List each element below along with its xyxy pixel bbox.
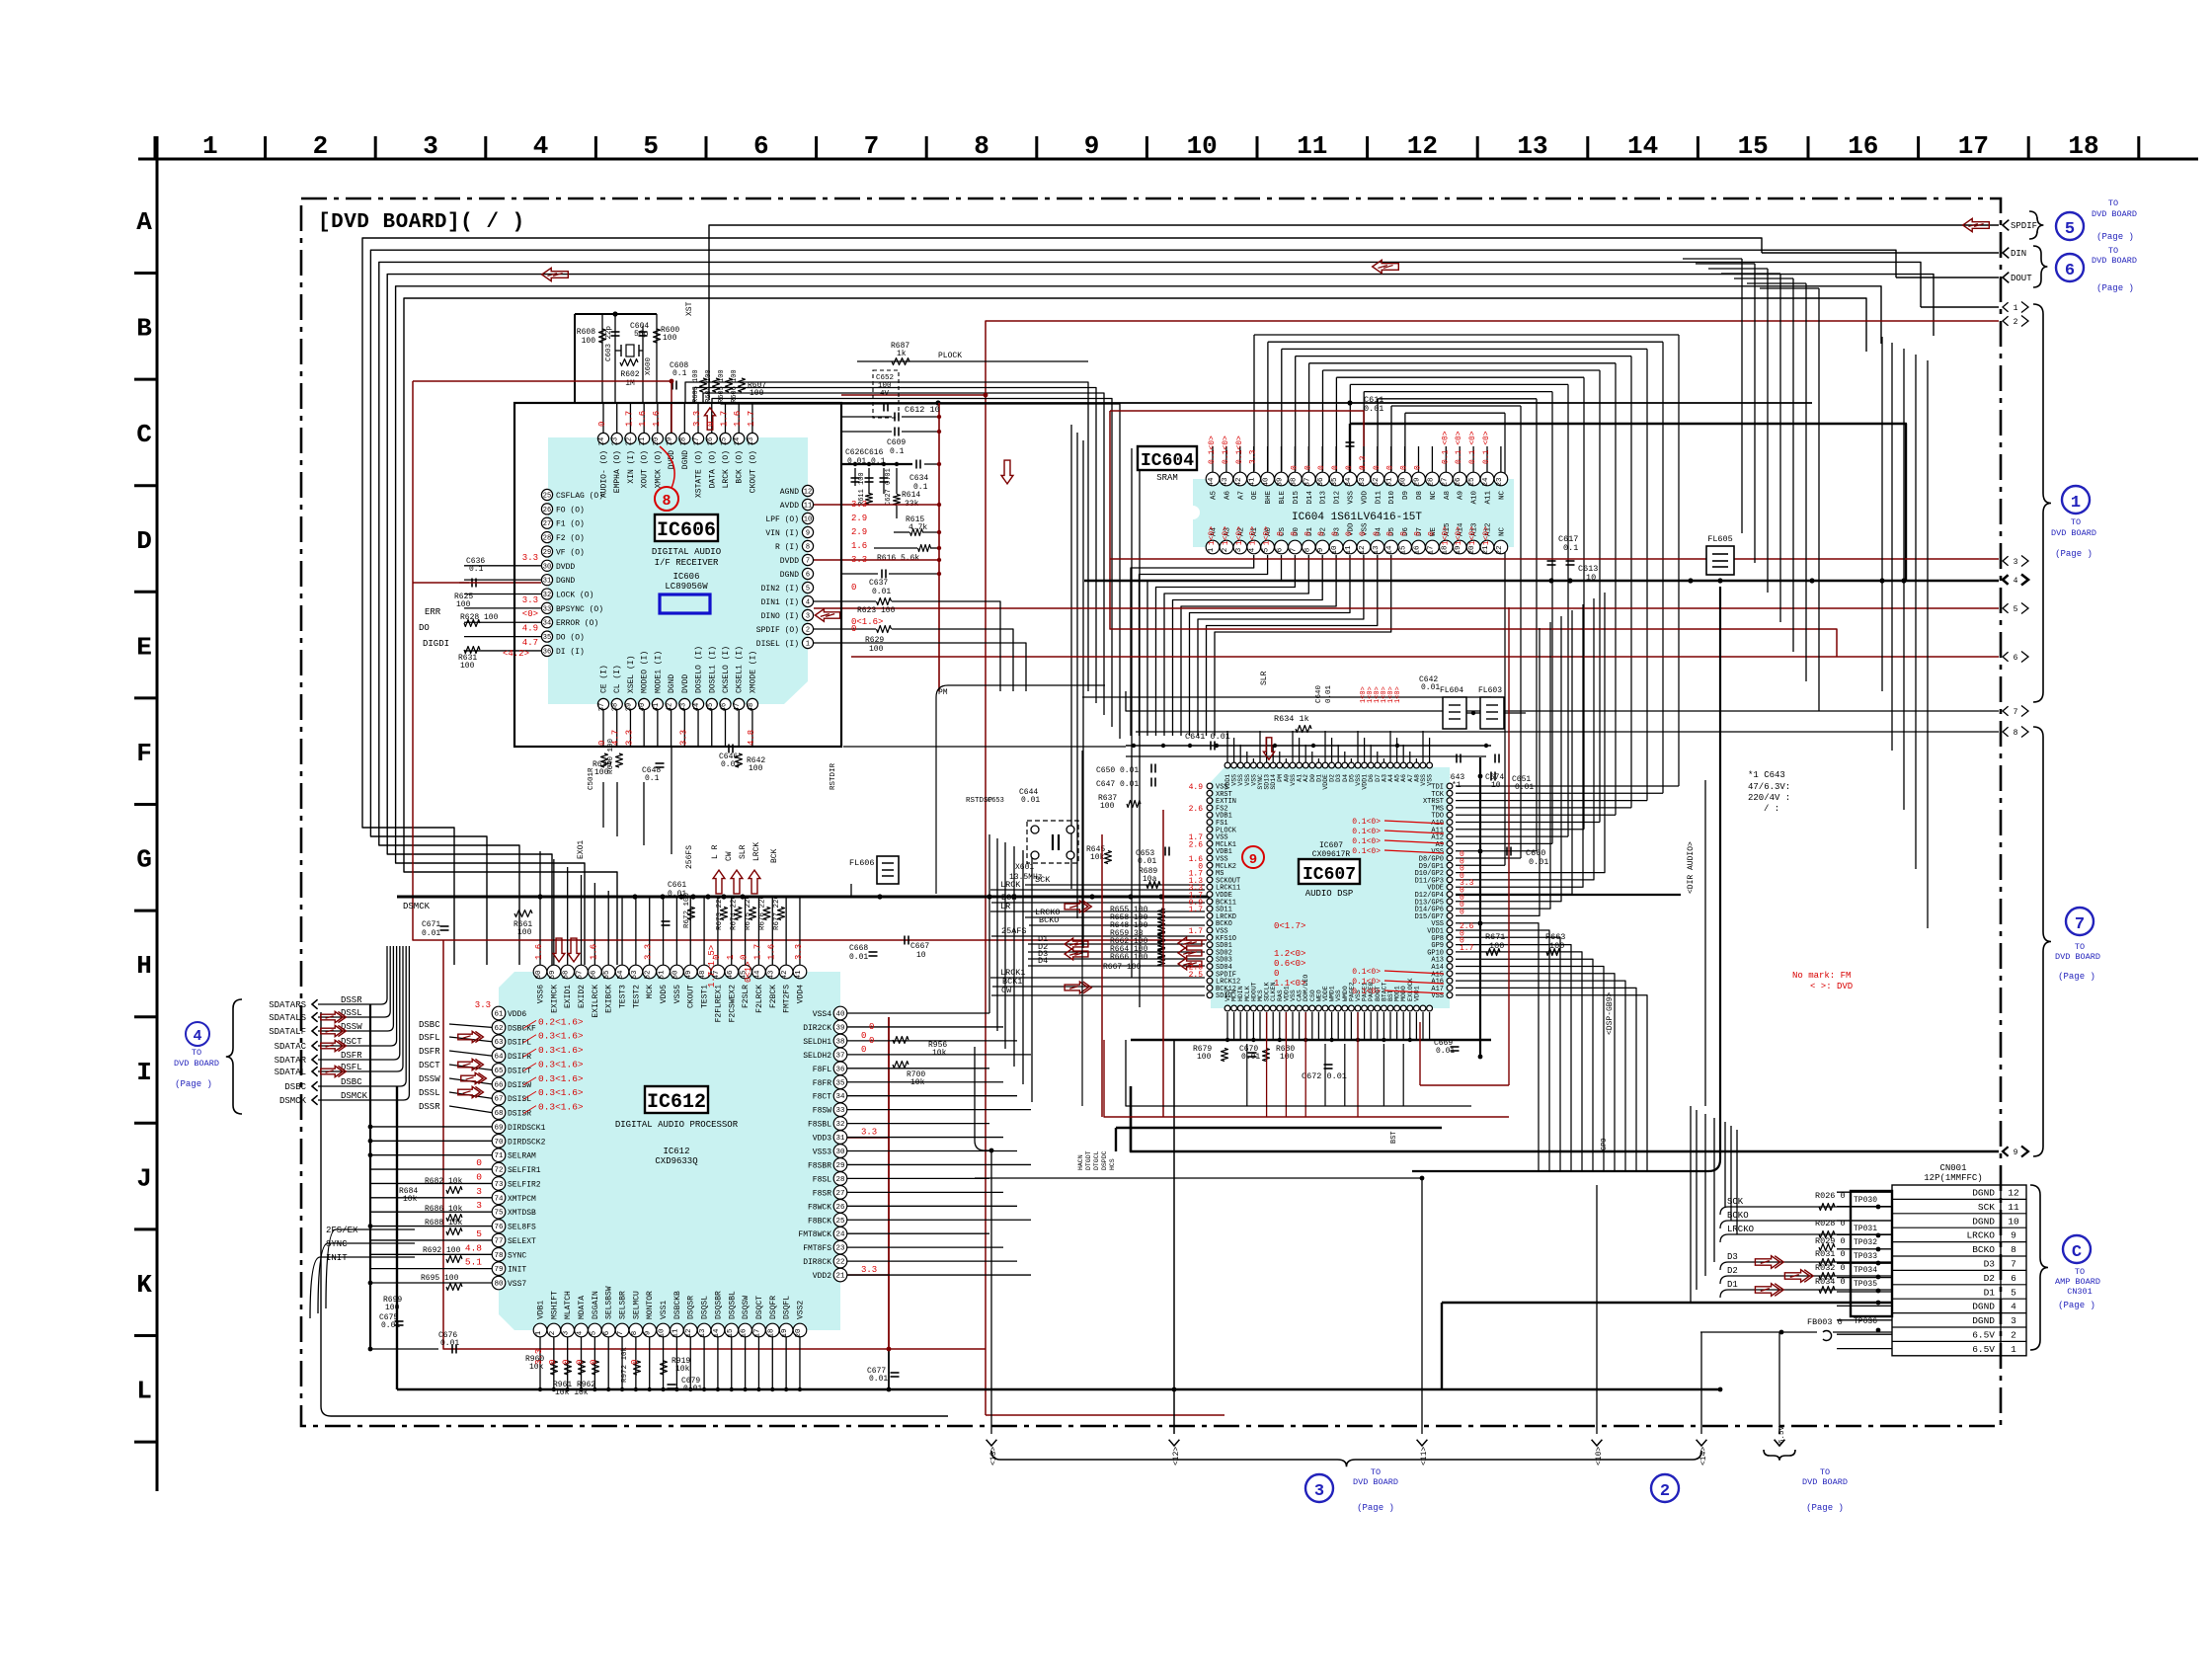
red wire <5> [851, 607, 1999, 609]
svg-text:(Page ): (Page ) [2058, 972, 2095, 982]
svg-text:32: 32 [1373, 477, 1381, 486]
FL604 FL603 [1443, 697, 1466, 729]
DVD BOARD dash-dot boundary [301, 198, 2001, 1426]
svg-text:CKSELO (I): CKSELO (I) [722, 646, 731, 693]
C641 bus [843, 746, 1126, 748]
edge DIN [2003, 248, 2009, 259]
svg-text:42: 42 [667, 703, 674, 711]
svg-text:1<0>: 1<0> [1482, 526, 1491, 545]
svg-text:D12: D12 [1334, 491, 1342, 505]
svg-text:C: C [2072, 1243, 2082, 1262]
svg-text:28: 28 [543, 535, 551, 543]
svg-text:0: 0 [1331, 531, 1340, 536]
svg-text:16: 16 [707, 437, 715, 445]
svg-text:22: 22 [835, 1259, 844, 1267]
svg-text:DATA (O): DATA (O) [708, 450, 717, 488]
svg-text:TP030: TP030 [1854, 1196, 1877, 1205]
svg-text:SLR: SLR [739, 844, 748, 859]
svg-text:27: 27 [543, 520, 551, 528]
svg-text:SEL8FS: SEL8FS [508, 1224, 536, 1232]
svg-text:C612 10: C612 10 [905, 405, 940, 415]
svg-text:SPDIF (O): SPDIF (O) [756, 626, 799, 635]
svg-text:<10>: <10> [1595, 1447, 1604, 1465]
svg-text:1<0>: 1<0> [1455, 526, 1463, 545]
svg-text:D15: D15 [1293, 491, 1301, 505]
svg-text:0: 0 [869, 1036, 874, 1046]
svg-text:TO: TO [2108, 246, 2118, 256]
top-left nested bus rectangles [362, 238, 1762, 965]
red verticals IC607 bottom [1266, 1012, 1268, 1117]
blue annotation 5 [2029, 211, 2043, 239]
svg-text:R605 100: R605 100 [718, 369, 726, 403]
red left bus from IC606 down [413, 381, 443, 940]
svg-text:DIGDI: DIGDI [423, 639, 449, 649]
svg-text:2.5: 2.5 [1189, 971, 1204, 980]
svg-text:DSSR: DSSR [419, 1102, 440, 1112]
svg-text:18: 18 [2068, 131, 2098, 161]
svg-text:10: 10 [1586, 573, 1596, 583]
svg-text:9: 9 [806, 530, 810, 538]
svg-text:3.3: 3.3 [678, 730, 688, 746]
svg-text:54: 54 [617, 970, 625, 980]
svg-text:8: 8 [662, 493, 671, 510]
svg-text:GP9: GP9 [1601, 1138, 1609, 1150]
svg-text:3: 3 [1314, 1482, 1324, 1501]
svg-text:76: 76 [494, 1224, 504, 1231]
svg-text:1.6: 1.6 [766, 944, 776, 960]
svg-text:13: 13 [699, 1328, 707, 1338]
blue rect marker inside IC606 [660, 594, 710, 613]
svg-text:DVD BOARD: DVD BOARD [2051, 528, 2096, 538]
svg-text:R692 100: R692 100 [423, 1246, 461, 1255]
svg-text:4: 4 [193, 1028, 201, 1045]
svg-text:DVDD: DVDD [556, 563, 575, 572]
svg-text:R606 100: R606 100 [731, 369, 739, 403]
IC607 top verticals [1226, 731, 1228, 762]
svg-text:5: 5 [643, 131, 659, 161]
edge arrow 4 [2003, 575, 2009, 585]
nested red/gray rects below IC607 [1104, 1040, 1509, 1117]
svg-text:0.1<0>: 0.1<0> [1208, 436, 1217, 464]
svg-text:OE: OE [1251, 491, 1259, 501]
svg-text:R034 0: R034 0 [1815, 1277, 1846, 1287]
svg-text:71: 71 [494, 1152, 504, 1160]
svg-text:DIR8CK: DIR8CK [803, 1258, 831, 1267]
svg-text:2: 2 [1222, 548, 1229, 553]
svg-text:AMP BOARD: AMP BOARD [2055, 1277, 2100, 1287]
svg-text:NC: NC [1430, 491, 1438, 501]
svg-text:DSQSBL: DSQSBL [728, 1291, 737, 1319]
blue annotation 7 [2033, 727, 2051, 1156]
svg-text:7: 7 [806, 558, 810, 566]
svg-text:3.3: 3.3 [475, 1000, 491, 1010]
svg-text:0: 0 [630, 1360, 640, 1365]
svg-text:TP034: TP034 [1854, 1266, 1877, 1275]
svg-text:25AFS: 25AFS [1001, 926, 1027, 936]
svg-text:44: 44 [1208, 477, 1216, 487]
svg-text:0.01: 0.01 [683, 1385, 702, 1393]
staircase below IC604 to IC607 [1131, 555, 1254, 736]
svg-text:R604 100: R604 100 [705, 369, 713, 403]
svg-text:(Page ): (Page ) [2055, 549, 2093, 559]
svg-text:1: 1 [202, 131, 218, 161]
svg-text:0: 0 [1373, 465, 1382, 470]
red bus around IC604 to <3> [1110, 411, 1837, 657]
svg-text:DSMCK: DSMCK [279, 1096, 307, 1106]
svg-text:R972 10k: R972 10k [621, 1346, 629, 1383]
svg-text:100: 100 [1197, 1053, 1212, 1062]
IC604 top black bus [1350, 424, 1906, 581]
svg-text:37: 37 [835, 1052, 844, 1060]
svg-text:F8SBL: F8SBL [808, 1121, 831, 1130]
IC606 right side network [938, 403, 940, 691]
svg-text:R674 220: R674 220 [731, 894, 739, 930]
svg-text:F1 (O): F1 (O) [556, 520, 585, 529]
IC612 pins bottom 1..20 [533, 1323, 547, 1337]
svg-text:4: 4 [806, 599, 810, 607]
svg-text:R675 220: R675 220 [745, 894, 752, 930]
svg-text:DGND: DGND [556, 577, 575, 586]
svg-text:0: 0 [1386, 531, 1395, 536]
svg-text:9: 9 [645, 1331, 653, 1336]
svg-text:TP033: TP033 [1854, 1252, 1877, 1261]
edge arrow 5 [2003, 603, 2009, 613]
IC604 top pin stubs [1212, 446, 1214, 472]
svg-text:0.2<1.6>: 0.2<1.6> [538, 1016, 584, 1027]
svg-text:SELDH2: SELDH2 [803, 1052, 831, 1061]
svg-text:TO: TO [2071, 517, 2081, 527]
svg-text:F8CT: F8CT [813, 1093, 831, 1102]
svg-text:A11: A11 [1485, 491, 1493, 505]
edge arrow 1 [2003, 302, 2009, 312]
svg-text:<DSP-GB9>: <DSP-GB9> [1606, 992, 1615, 1035]
svg-text:2.6: 2.6 [1460, 922, 1474, 931]
svg-text:100: 100 [582, 337, 596, 346]
svg-text:R667 100: R667 100 [1103, 963, 1142, 972]
svg-text:0.01 0.1: 0.01 0.1 [847, 457, 886, 466]
svg-text:FL606: FL606 [849, 858, 875, 868]
svg-text:3.3: 3.3 [794, 944, 804, 960]
IC606 pins bottom 37..48 [597, 698, 608, 709]
svg-text:(Page ): (Page ) [1357, 1503, 1394, 1513]
svg-text:VSS: VSS [1427, 774, 1434, 786]
svg-text:CN301: CN301 [2067, 1287, 2093, 1297]
svg-text:[DVD BOARD]( / ): [DVD BOARD]( / ) [318, 211, 525, 234]
svg-text:44: 44 [693, 703, 701, 711]
svg-text:DSSW: DSSW [341, 1022, 362, 1032]
svg-text:DIRDSCK2: DIRDSCK2 [508, 1138, 546, 1147]
svg-text:47: 47 [734, 703, 742, 711]
svg-text:IC606: IC606 [672, 572, 699, 582]
svg-text:24: 24 [1482, 477, 1490, 487]
blue annotation 6 [2033, 246, 2047, 287]
svg-text:DGND: DGND [1972, 1216, 1995, 1227]
svg-text:5: 5 [2065, 220, 2075, 239]
svg-text:1<0>: 1<0> [1441, 526, 1450, 545]
svg-text:0.01: 0.01 [1325, 684, 1333, 703]
svg-text:24: 24 [835, 1231, 845, 1239]
svg-text:A: A [136, 207, 152, 237]
svg-text:9: 9 [2014, 1148, 2018, 1157]
svg-text:IC606: IC606 [657, 519, 716, 542]
svg-text:24: 24 [598, 437, 606, 445]
svg-text:BPSYNC (O): BPSYNC (O) [556, 605, 603, 614]
red wire <2> to edge [986, 321, 1999, 1415]
svg-text:D13: D13 [1320, 491, 1328, 505]
C652 dashed box [873, 370, 899, 418]
svg-text:DVD BOARD: DVD BOARD [2055, 952, 2100, 962]
svg-text:10k 10k: 10k 10k [555, 1388, 589, 1397]
svg-text:DVD BOARD: DVD BOARD [1353, 1477, 1398, 1487]
svg-text:SELEXT: SELEXT [508, 1237, 536, 1246]
svg-text:3.3: 3.3 [851, 555, 867, 565]
svg-text:1.7<1.5>: 1.7<1.5> [707, 945, 717, 988]
svg-text:78: 78 [494, 1252, 503, 1260]
svg-text:4.8: 4.8 [747, 730, 756, 746]
svg-text:DSMCK: DSMCK [341, 1091, 368, 1101]
svg-text:FO (O): FO (O) [556, 506, 585, 515]
svg-text:39: 39 [835, 1024, 844, 1032]
svg-text:BCKO: BCKO [1039, 915, 1059, 925]
svg-text:2.6: 2.6 [1189, 840, 1204, 849]
svg-text:26: 26 [1455, 477, 1462, 487]
svg-text:0.1<0>: 0.1<0> [1352, 837, 1381, 846]
svg-text:100: 100 [869, 645, 884, 654]
IC607 body [1211, 767, 1450, 1008]
svg-text:23: 23 [835, 1245, 845, 1253]
svg-text:20: 20 [1468, 545, 1476, 555]
svg-text:79: 79 [494, 1266, 503, 1274]
red 3.3 line over IC606 to pin19 [413, 381, 671, 433]
svg-text:0: 0 [1317, 465, 1326, 470]
svg-text:100: 100 [663, 334, 677, 343]
svg-text:0: 0 [1303, 465, 1312, 470]
svg-text:DSFR: DSFR [341, 1051, 362, 1061]
wire <7> [1126, 691, 1999, 711]
svg-text:2: 2 [2014, 318, 2018, 327]
svg-text:5: 5 [476, 1228, 482, 1239]
edge arrow 3 [2003, 556, 2009, 566]
svg-text:C501R: C501R [588, 767, 595, 790]
svg-text:63: 63 [494, 1039, 504, 1047]
svg-text:F2FLREX1: F2FLREX1 [714, 985, 723, 1023]
svg-text:VSS7: VSS7 [508, 1280, 526, 1289]
svg-text:0.01: 0.01 [1421, 683, 1440, 692]
svg-text:R032 0: R032 0 [1815, 1263, 1846, 1273]
heavy VSS rail x1499 [1479, 757, 1481, 1057]
svg-text:0.1<0>: 0.1<0> [1352, 847, 1381, 856]
svg-text:C661: C661 [668, 881, 686, 890]
svg-text:DSQSR: DSQSR [687, 1296, 696, 1319]
svg-text:VSS: VSS [1348, 491, 1356, 505]
svg-text:3: 3 [2014, 558, 2018, 567]
svg-text:A8: A8 [1444, 491, 1452, 500]
IC612 pins right 40..21 [833, 1006, 847, 1020]
svg-text:3.3: 3.3 [1460, 879, 1474, 888]
svg-text:CW: CW [725, 851, 734, 861]
IC606 left stubs [464, 565, 541, 567]
svg-text:C672 0.01: C672 0.01 [1302, 1071, 1347, 1081]
svg-text:DSFL: DSFL [419, 1033, 440, 1043]
svg-text:1.7: 1.7 [1189, 906, 1204, 914]
svg-text:6: 6 [2011, 1273, 2016, 1284]
svg-text:DSQCT: DSQCT [755, 1296, 764, 1319]
svg-text:12: 12 [1407, 131, 1438, 161]
svg-text:XMCK (O): XMCK (O) [654, 450, 663, 488]
svg-text:DSGAIN: DSGAIN [592, 1291, 600, 1319]
svg-text:3: 3 [476, 1200, 482, 1211]
svg-text:DOUT: DOUT [2011, 274, 2032, 283]
svg-text:XSEL (I): XSEL (I) [627, 656, 636, 693]
svg-text:1.7: 1.7 [624, 411, 634, 427]
svg-text:0: 0 [1414, 531, 1423, 536]
svg-text:3.3: 3.3 [522, 553, 538, 563]
svg-text:0.01: 0.01 [872, 588, 891, 596]
svg-text:18: 18 [1441, 545, 1449, 554]
svg-text:DSSL: DSSL [341, 1008, 362, 1018]
svg-text:TO: TO [1820, 1467, 1830, 1477]
svg-text:SELRAM: SELRAM [508, 1152, 536, 1161]
svg-text:TO: TO [2075, 1267, 2085, 1277]
svg-text:0: 0 [861, 1045, 866, 1055]
svg-text:0.01: 0.01 [1515, 783, 1534, 792]
svg-text:29: 29 [1414, 477, 1422, 486]
red arrows D3 D2 D1 [1755, 1256, 1779, 1269]
svg-text:PLOCK: PLOCK [938, 352, 962, 360]
svg-text:F8FR: F8FR [813, 1079, 831, 1088]
svg-text:15: 15 [720, 437, 728, 445]
svg-text:21: 21 [835, 1273, 845, 1281]
svg-text:DI (I): DI (I) [556, 648, 585, 657]
svg-text:32: 32 [543, 592, 551, 599]
svg-text:DSQSL: DSQSL [701, 1296, 710, 1319]
svg-text:10: 10 [804, 516, 812, 524]
svg-text:SDATAC: SDATAC [275, 1042, 307, 1052]
svg-text:TEST3: TEST3 [619, 985, 628, 1008]
svg-text:6: 6 [603, 1330, 611, 1335]
svg-text:0: 0 [1290, 531, 1299, 536]
svg-text:10: 10 [1187, 131, 1218, 161]
svg-text:DSBCKF: DSBCKF [508, 1024, 536, 1033]
svg-text:F8SL: F8SL [813, 1175, 831, 1184]
svg-text:< >: DVD: < >: DVD [1810, 982, 1853, 991]
svg-text:6.5V: 6.5V [1972, 1344, 1995, 1355]
svg-text:0.1<0>: 0.1<0> [1352, 968, 1381, 977]
svg-text:4: 4 [577, 1330, 585, 1335]
svg-text:58: 58 [563, 970, 571, 979]
svg-text:LC89056W: LC89056W [665, 582, 708, 592]
svg-text:20: 20 [795, 1328, 803, 1338]
svg-text:48: 48 [748, 703, 755, 711]
svg-text:C609: C609 [887, 438, 906, 447]
left verticals feeding CN signals [1690, 1106, 1692, 1303]
svg-text:0.1 <0>: 0.1 <0> [1455, 431, 1463, 464]
svg-text:EMPHA (O): EMPHA (O) [613, 450, 622, 493]
svg-text:F8BCK: F8BCK [808, 1217, 831, 1226]
svg-text:DGND: DGND [668, 674, 676, 693]
svg-text:36: 36 [543, 648, 551, 656]
red circled 9 [1242, 846, 1264, 868]
svg-text:R628 100: R628 100 [460, 613, 499, 622]
svg-text:SYNC: SYNC [508, 1251, 526, 1260]
svg-text:28: 28 [1427, 477, 1435, 486]
svg-text:0: 0 [1290, 465, 1299, 470]
svg-text:R608: R608 [577, 328, 595, 337]
svg-text:1<0>: 1<0> [1222, 526, 1230, 545]
svg-text:3.3: 3.3 [534, 1349, 544, 1365]
svg-text:VIN (I): VIN (I) [765, 529, 799, 538]
svg-text:DOSEL1 (I): DOSEL1 (I) [708, 646, 717, 693]
red loop right of IC607 [1508, 780, 1510, 1085]
svg-text:35: 35 [835, 1079, 845, 1087]
svg-text:LOCK (O): LOCK (O) [556, 592, 593, 600]
svg-text:1<0>: 1<0> [1394, 686, 1402, 703]
svg-text:33: 33 [1359, 477, 1367, 487]
svg-text:MODEO (I): MODEO (I) [641, 651, 650, 693]
svg-text:25: 25 [835, 1218, 845, 1226]
right vertical bundle down to arrows [1881, 337, 1883, 691]
svg-text:0.3<1.6>: 0.3<1.6> [538, 1059, 584, 1069]
svg-text:R673 220: R673 220 [716, 894, 724, 930]
svg-text:D2: D2 [1984, 1273, 1996, 1284]
svg-text:0: 0 [1303, 531, 1312, 536]
svg-text:DSQFL: DSQFL [783, 1296, 792, 1319]
svg-text:74: 74 [494, 1195, 504, 1203]
svg-text:80: 80 [494, 1281, 504, 1289]
svg-text:6: 6 [2014, 654, 2018, 663]
svg-text:2: 2 [2011, 1330, 2016, 1341]
svg-text:53: 53 [631, 970, 639, 980]
svg-text:<13>: <13> [989, 1447, 998, 1465]
svg-text:14: 14 [734, 437, 742, 445]
svg-text:4.7k: 4.7k [908, 523, 927, 532]
X600 crystal circuit above IC606 [575, 313, 657, 315]
svg-text:31: 31 [1386, 477, 1394, 487]
svg-text:100: 100 [1549, 941, 1564, 951]
svg-text:DGND: DGND [780, 571, 799, 580]
svg-text:2.9: 2.9 [851, 527, 867, 537]
svg-text:8: 8 [2014, 729, 2018, 738]
svg-text:TP032: TP032 [1854, 1238, 1877, 1247]
svg-text:FL603: FL603 [1478, 686, 1502, 695]
svg-text:3.3: 3.3 [1359, 455, 1368, 470]
svg-text:R686 10k: R686 10k [425, 1205, 463, 1214]
svg-text:D14: D14 [1306, 491, 1314, 505]
svg-text:21: 21 [1482, 545, 1490, 555]
svg-text:46: 46 [727, 970, 735, 980]
edge arrow 8 [2003, 727, 2009, 737]
svg-text:41: 41 [1249, 477, 1257, 487]
svg-text:32: 32 [835, 1121, 844, 1129]
svg-text:1.7: 1.7 [719, 411, 729, 427]
svg-text:26: 26 [543, 507, 551, 515]
svg-text:30: 30 [1400, 477, 1408, 487]
svg-text:23: 23 [612, 437, 620, 445]
svg-text:42: 42 [781, 970, 789, 979]
svg-text:TO: TO [1371, 1467, 1381, 1477]
svg-text:NC: NC [1498, 526, 1506, 536]
VDD bus extending right from IC606 box top [841, 402, 1812, 404]
svg-text:0: 0 [1386, 465, 1395, 470]
svg-text:FMT8FS: FMT8FS [803, 1244, 831, 1253]
svg-text:R682 10k: R682 10k [425, 1177, 463, 1186]
svg-text:0.1<0>: 0.1<0> [1222, 436, 1230, 464]
svg-text:0: 0 [1400, 531, 1409, 536]
svg-text:19: 19 [1455, 545, 1462, 554]
svg-text:CKOUT (O): CKOUT (O) [749, 450, 757, 493]
svg-text:0.01: 0.01 [849, 953, 868, 962]
svg-text:3: 3 [423, 131, 438, 161]
